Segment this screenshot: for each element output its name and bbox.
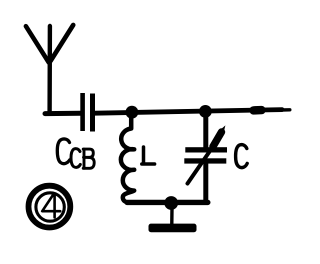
wire bottom [127,200,208,205]
arrow output [254,106,262,115]
label L [142,147,155,164]
inductor L [121,114,134,202]
label C [236,145,248,168]
capacitor CCB [83,93,93,132]
arrow (variable adjust) [188,125,226,183]
node junction 2 [199,105,212,118]
node junction 3 [164,196,178,210]
figure number 4 [29,186,71,228]
ground [149,208,197,232]
node junction 1 [125,106,138,119]
antenna [26,25,73,114]
label CCB [57,139,94,168]
wire main horizontal [95,110,282,114]
wire tip [281,108,290,112]
capacitor C (variable) [184,113,227,202]
wire antenna to CCB [45,111,81,116]
